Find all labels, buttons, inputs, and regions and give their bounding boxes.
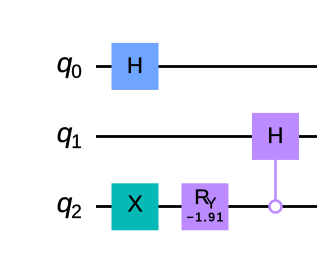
- gate RY(-1.91) on q2: [182, 183, 229, 230]
- svg-text:1: 1: [71, 132, 82, 153]
- svg-text:q: q: [57, 47, 73, 78]
- open control on q2: [270, 201, 282, 213]
- svg-text:−1.91: −1.91: [187, 211, 225, 225]
- gate X on q2: [112, 183, 159, 230]
- control line (controlled-H q2 to q1): [274, 158, 277, 200]
- wire q1: [96, 135, 317, 138]
- wire q2: [96, 205, 317, 208]
- svg-text:H: H: [268, 123, 284, 148]
- svg-text:2: 2: [71, 202, 82, 223]
- gate H on q0: [112, 43, 159, 90]
- wire q0: [96, 65, 317, 68]
- svg-text:q: q: [57, 117, 73, 148]
- svg-text:X: X: [128, 191, 143, 217]
- svg-text:H: H: [127, 53, 143, 78]
- svg-text:0: 0: [71, 62, 82, 83]
- gate H on q1 (target of controlled gate): [252, 113, 299, 160]
- svg-text:q: q: [57, 187, 73, 218]
